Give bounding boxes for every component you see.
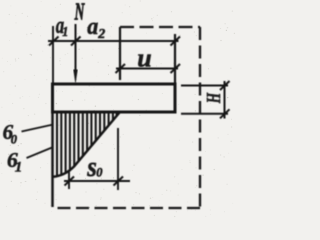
svg-text:0: 0 xyxy=(11,133,18,147)
svg-text:2: 2 xyxy=(97,27,105,42)
svg-text:0: 0 xyxy=(96,166,103,180)
svg-text:u: u xyxy=(137,44,151,73)
svg-text:a: a xyxy=(87,12,98,39)
svg-text:1: 1 xyxy=(15,160,22,176)
svg-text:H: H xyxy=(202,92,225,104)
svg-text:N: N xyxy=(74,0,85,26)
svg-text:1: 1 xyxy=(62,25,68,40)
